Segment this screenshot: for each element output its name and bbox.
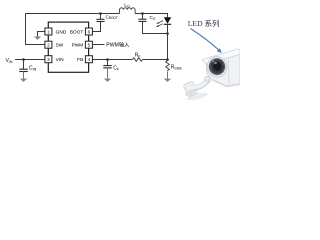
- capacitor CIN: [19, 60, 36, 79]
- ground arrow below CIN: [20, 79, 27, 82]
- svg-text:3: 3: [47, 57, 50, 62]
- svg-text:SW: SW: [56, 43, 64, 49]
- camera photo (CCTV bullet camera): [183, 49, 240, 102]
- svg-text:PWM输入: PWM输入: [106, 41, 129, 49]
- camera body bottom shade: [212, 79, 240, 87]
- wire LED cathode down to RSNS node: [167, 24, 169, 59]
- camera arm: [193, 76, 210, 87]
- camera mount base: [183, 81, 198, 97]
- svg-text:FB: FB: [77, 57, 83, 63]
- pin 5 box: [85, 41, 92, 48]
- resistor RF: [133, 53, 143, 62]
- wire VIN to pin3: [15, 59, 45, 61]
- IC U1 body: [48, 22, 88, 72]
- ground arrow below RSNS: [164, 79, 171, 82]
- svg-text:4: 4: [88, 57, 91, 62]
- svg-text:6: 6: [88, 30, 91, 35]
- capacitor CF: [103, 60, 120, 79]
- node CIN junction: [22, 58, 25, 61]
- LED D1: [156, 17, 171, 27]
- arrow callout to camera: [191, 29, 222, 54]
- ground arrow below CF: [104, 79, 111, 82]
- svg-text:2: 2: [47, 43, 50, 48]
- svg-text:1: 1: [47, 30, 50, 35]
- wire inductor to LED anode: [135, 14, 167, 18]
- camera lens rings: [207, 56, 227, 76]
- svg-text:PWM: PWM: [72, 43, 84, 49]
- wire FB to RF: [92, 59, 132, 61]
- camera front rim: [205, 55, 229, 79]
- svg-text:5: 5: [88, 43, 91, 48]
- svg-text:VIN: VIN: [56, 57, 65, 63]
- camera sunshield: [202, 49, 240, 65]
- pin 1 box: [45, 28, 52, 35]
- capacitor CBOOT: [92, 12, 118, 31]
- camera drop shadow: [186, 91, 209, 102]
- pin 2 box: [45, 41, 52, 48]
- wire SW pin2 left-up to top rail: [26, 14, 120, 45]
- svg-text:LED 系列: LED 系列: [188, 18, 220, 28]
- node RSNS junction: [166, 58, 169, 61]
- inductor L1: [120, 3, 136, 14]
- pin 3 box: [45, 56, 52, 63]
- node CO top junction: [141, 12, 144, 15]
- camera body: [206, 51, 240, 87]
- svg-text:GND: GND: [56, 29, 67, 35]
- wire RF to RSNS node: [143, 59, 168, 61]
- resistor RSNS: [166, 60, 183, 79]
- node CF junction: [106, 58, 109, 61]
- ground (signal gnd at pin1): [34, 37, 41, 40]
- node CO bottom junction: [166, 32, 169, 35]
- pin 4 box: [85, 56, 92, 63]
- camera body seam: [227, 54, 230, 86]
- capacitor CO: [139, 14, 168, 34]
- pin 6 box: [85, 28, 92, 35]
- svg-text:BOOT: BOOT: [70, 29, 84, 35]
- wire PWM input: [92, 44, 104, 46]
- wire GND pin1 to ground: [38, 32, 45, 37]
